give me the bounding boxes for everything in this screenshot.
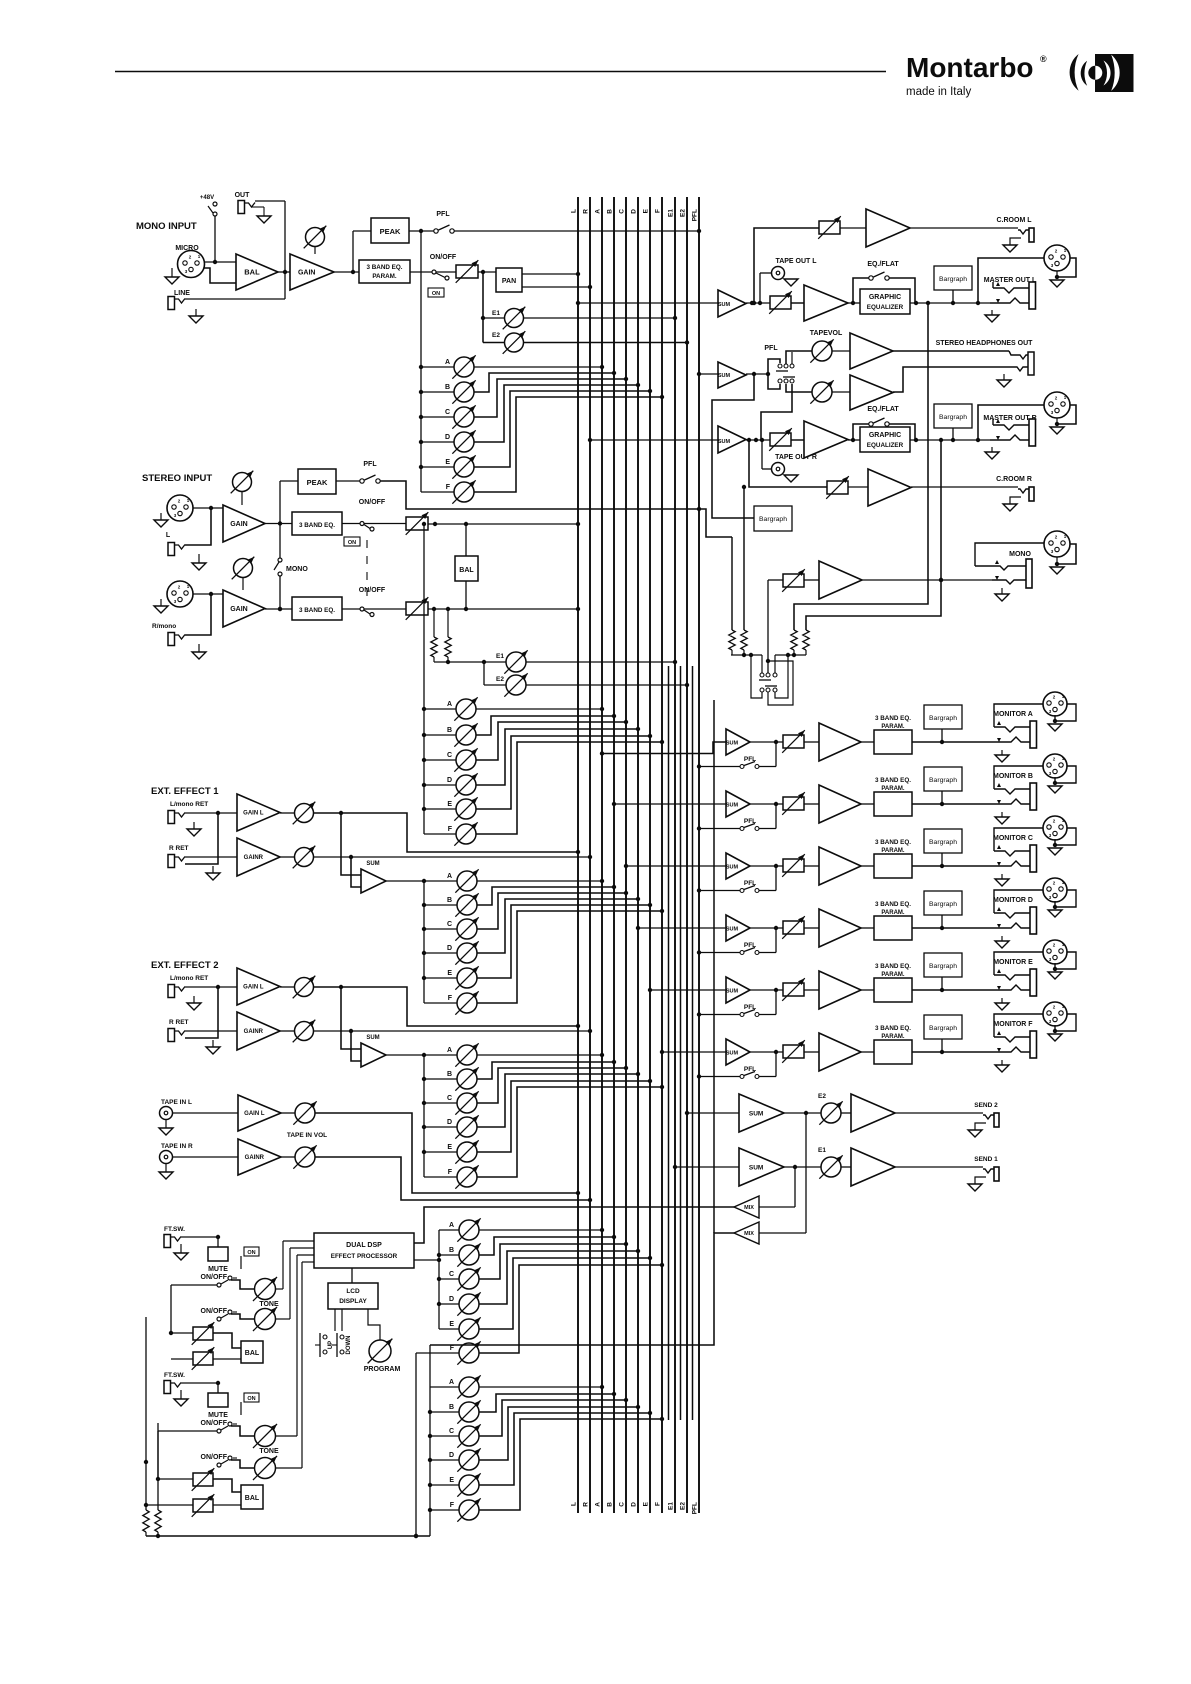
wire dsp2 fan feed (429, 1345, 431, 1536)
wire bus E (643, 197, 651, 1513)
wire (768, 579, 783, 581)
svg-text:SUM: SUM (718, 302, 731, 308)
wire (759, 866, 776, 891)
wire monitor C feed (624, 864, 726, 868)
wire monitor D feed (636, 926, 726, 930)
potentiometer dsp1 send B (457, 1243, 480, 1266)
wire (439, 1278, 459, 1280)
svg-text:MONITOR C: MONITOR C (993, 835, 1033, 842)
node MONO label (1009, 551, 1031, 558)
node SUM label (366, 1035, 379, 1041)
wire (424, 1102, 457, 1104)
svg-text:PFL: PFL (692, 209, 699, 221)
ground (997, 374, 1011, 387)
svg-text:ON/OFF: ON/OFF (359, 499, 386, 506)
node junction (419, 365, 423, 369)
ground (985, 310, 999, 322)
svg-text:3 BAND EQ.: 3 BAND EQ. (875, 715, 911, 722)
svg-text:E: E (449, 1321, 454, 1328)
svg-text:LCD: LCD (346, 1288, 360, 1295)
ground (187, 996, 201, 1010)
svg-text:+48V: +48V (200, 195, 214, 201)
block MUTE (208, 1393, 228, 1419)
node TAPE OUT R label (775, 454, 817, 461)
wire (158, 1431, 217, 1480)
wire (893, 351, 1016, 355)
wire (1053, 766, 1076, 785)
wire (912, 1050, 991, 1054)
potentiometer E2 send mono (503, 331, 526, 354)
wire PAN R out (522, 285, 592, 289)
svg-text:E: E (449, 1477, 454, 1484)
svg-text:3 BAND EQ.: 3 BAND EQ. (299, 522, 335, 529)
wire (185, 298, 285, 300)
potentiometer send A stereo (454, 697, 477, 720)
ground (784, 279, 798, 286)
wire (476, 727, 640, 785)
wire (421, 466, 454, 468)
wire (185, 856, 237, 858)
node +48V phantom label (200, 195, 214, 201)
ground (1050, 427, 1064, 434)
svg-text:GAINR: GAINR (245, 1155, 265, 1161)
wire (762, 440, 771, 469)
node 3 BAND EQ PARAM labels (875, 1025, 911, 1040)
wire (861, 741, 874, 743)
wire (115, 71, 886, 73)
wire (474, 395, 664, 492)
wire monitor E PFL (697, 1012, 740, 1016)
connector headphones jack (1013, 352, 1034, 375)
wire (483, 342, 504, 344)
ground (159, 1120, 173, 1135)
svg-text:GAIN: GAIN (298, 270, 316, 277)
svg-text:Bargraph: Bargraph (929, 777, 957, 784)
wire (861, 803, 874, 805)
wire monitor C PFL (697, 888, 740, 892)
wire (265, 521, 292, 525)
op-amp MONO amp (804, 561, 862, 599)
wire effect send feed (423, 1055, 425, 1177)
node junction (419, 415, 423, 419)
connector MASTER OUT L XLR (1044, 245, 1070, 271)
node MONITOR F label (993, 1021, 1033, 1028)
wire master L to mono resistor (794, 303, 928, 630)
node EQ./FLAT label (867, 406, 899, 413)
fader monitor E (782, 978, 805, 1001)
svg-text:SUM: SUM (726, 865, 739, 871)
wire (910, 301, 990, 305)
svg-text:PEAK: PEAK (380, 227, 401, 236)
wire (975, 543, 1044, 566)
node junction (422, 1150, 426, 1154)
switch mono source A (759, 655, 777, 680)
svg-text:DUAL DSP: DUAL DSP (346, 1242, 382, 1249)
wire (231, 1280, 254, 1289)
wire (1053, 828, 1076, 847)
wire bus PFL (692, 197, 700, 1514)
node MASTER OUT R label (983, 415, 1036, 422)
svg-text:EFFECT PROCESSOR: EFFECT PROCESSOR (331, 1253, 398, 1260)
svg-text:PARAM.: PARAM. (881, 910, 905, 916)
wire (352, 231, 354, 272)
svg-text:LINE: LINE (174, 290, 190, 297)
wire (477, 1079, 652, 1152)
node junction (419, 390, 423, 394)
wire effect send feed (423, 881, 425, 1003)
node ON box (244, 1247, 259, 1256)
connector MASTER OUT R jacks (990, 419, 1036, 446)
potentiometer send C mono (452, 405, 475, 428)
node send C label (449, 1271, 454, 1278)
wire (479, 1411, 652, 1485)
svg-text:SUM: SUM (726, 741, 739, 747)
node send E label (449, 1477, 454, 1484)
wire (193, 592, 223, 596)
svg-text:Bargraph: Bargraph (929, 901, 957, 908)
wire mono PFL to bus (419, 229, 701, 233)
svg-text:E2: E2 (818, 1093, 826, 1100)
svg-text:PARAM.: PARAM. (881, 724, 905, 730)
op-amp SUM effect (361, 1043, 386, 1067)
switch stereo L ON/OFF (360, 522, 374, 532)
node R RET label (169, 845, 189, 852)
ground (154, 513, 168, 527)
node send F label (450, 1345, 455, 1352)
potentiometer TAPE IN VOL R (293, 1145, 316, 1168)
svg-text:ON/OFF: ON/OFF (201, 1454, 228, 1461)
ground (154, 599, 168, 613)
wire (479, 1242, 628, 1279)
node send F label (448, 995, 453, 1002)
node send F label (450, 1502, 455, 1509)
svg-text:TAPE IN VOL: TAPE IN VOL (287, 1132, 327, 1139)
svg-text:TAPE OUT L: TAPE OUT L (775, 258, 817, 265)
wire (278, 576, 282, 611)
wire (430, 1435, 459, 1437)
svg-text:F: F (448, 1169, 453, 1176)
wire (759, 1113, 806, 1233)
connector monitor D jack (991, 907, 1037, 934)
svg-text:Bargraph: Bargraph (929, 1025, 957, 1032)
svg-text:made in Italy: made in Italy (906, 86, 971, 98)
potentiometer effect L level (293, 976, 316, 999)
connector MONO jack (992, 559, 1032, 588)
node send D label (447, 1119, 452, 1126)
svg-text:A: A (449, 1222, 454, 1229)
potentiometer send E (455, 1140, 478, 1163)
wire monitor F PFL (697, 1074, 740, 1078)
wire (146, 1504, 193, 1506)
svg-text:F: F (446, 484, 451, 491)
wire monitor F feed (660, 1050, 726, 1054)
op-amp monitor D amp (819, 909, 861, 947)
ground (165, 268, 179, 284)
wire (477, 1072, 640, 1127)
wire (483, 317, 504, 319)
ground (1003, 238, 1021, 252)
wire (804, 927, 819, 929)
wire (910, 227, 1018, 229)
node 3 BAND EQ PARAM labels (875, 963, 911, 978)
node TAPE OUT L label (775, 258, 817, 265)
svg-text:E2: E2 (680, 209, 687, 217)
node ON/OFF label 2 (201, 1454, 228, 1461)
wire (144, 1462, 148, 1510)
wire (784, 1111, 821, 1115)
svg-text:E: E (643, 1501, 650, 1506)
block 3 BAND EQ monitor D (874, 916, 912, 940)
wire stereo send feed (423, 524, 425, 834)
potentiometer TONE 2 (253, 1456, 277, 1480)
svg-text:B: B (447, 727, 452, 734)
svg-text:BAL: BAL (245, 1495, 260, 1502)
wire (185, 811, 237, 815)
op-amp GAIN L (237, 794, 280, 831)
node junction (419, 465, 423, 469)
wire (750, 802, 783, 806)
node junction (428, 1458, 432, 1462)
svg-text:MONO: MONO (286, 566, 308, 573)
svg-text:A: A (595, 209, 602, 214)
wire (861, 989, 874, 991)
connector monitor B jack (991, 783, 1037, 810)
wire (185, 508, 211, 545)
wire (181, 1235, 220, 1247)
wire (421, 416, 454, 418)
svg-text:EXT. EFFECT 2: EXT. EFFECT 2 (151, 960, 219, 971)
connector monitor F jack (991, 1031, 1037, 1058)
svg-text:E: E (447, 1144, 452, 1151)
svg-text:SEND 1: SEND 1 (974, 1156, 998, 1163)
op-amp C.ROOM R amp (848, 469, 911, 506)
ground (968, 1123, 986, 1137)
potentiometer send E mono (452, 455, 475, 478)
wire monitor A PFL (697, 764, 740, 768)
switch MONO (274, 558, 282, 576)
svg-text:E1: E1 (818, 1147, 826, 1154)
svg-text:3 BAND EQ.: 3 BAND EQ. (299, 607, 335, 614)
wire (421, 491, 454, 493)
node FT.SW. label (164, 1226, 185, 1233)
svg-text:FT.SW.: FT.SW. (164, 1372, 185, 1379)
wire (279, 481, 281, 524)
wire (213, 1479, 241, 1492)
wire (280, 856, 294, 858)
wire (185, 813, 218, 864)
wire (786, 351, 812, 364)
svg-text:GRAPHIC: GRAPHIC (869, 432, 901, 439)
fader mono channel (456, 260, 479, 283)
svg-text:C.ROOM R: C.ROOM R (996, 476, 1032, 483)
connector MASTER OUT L jacks (990, 282, 1036, 309)
wire (889, 278, 918, 305)
resistor stereo R mix (445, 609, 451, 657)
wire (477, 879, 604, 883)
potentiometer send B (455, 1067, 478, 1090)
node junction (422, 807, 426, 811)
ground (995, 874, 1009, 886)
svg-text:SUM: SUM (749, 1164, 763, 1171)
wire (424, 977, 457, 979)
node TONE label (259, 1448, 279, 1455)
svg-text:R RET: R RET (169, 1019, 189, 1026)
node 3 BAND EQ PARAM labels (875, 715, 911, 730)
wire (231, 1426, 254, 1436)
fader dsp2 L (192, 1468, 215, 1491)
node EQ./FLAT label (867, 261, 899, 268)
node 3 BAND EQ PARAM labels (875, 839, 911, 854)
wire (742, 440, 827, 489)
node ON box (428, 288, 444, 297)
node FT.SW. label (164, 1372, 185, 1379)
node send B label (447, 727, 452, 734)
wire (430, 1411, 459, 1413)
node junction (422, 783, 426, 787)
connector SEND 1 jack (983, 1167, 999, 1181)
wire (474, 383, 640, 442)
potentiometer gain (304, 226, 327, 254)
switch PFL mono (434, 225, 454, 233)
wire (941, 853, 943, 866)
node STEREO HEADPHONES OUT label (936, 340, 1034, 347)
node junction (428, 1483, 432, 1487)
node ON/OFF label 2 (201, 1308, 228, 1315)
switch monitor E PFL (740, 1010, 759, 1017)
op-amp MIX 2 (734, 1222, 759, 1244)
node junction (428, 1508, 432, 1512)
potentiometer dsp2 send A (457, 1375, 480, 1398)
wire (144, 1317, 148, 1464)
node PFL label (363, 461, 377, 468)
svg-text:L/mono RET: L/mono RET (170, 975, 208, 982)
node ON box (244, 1393, 259, 1402)
svg-text:SUM: SUM (366, 1035, 379, 1041)
wire (280, 812, 294, 814)
ground (995, 588, 1009, 601)
wire (759, 928, 776, 953)
node E1 label (492, 310, 500, 317)
svg-text:A: A (445, 359, 450, 366)
op-amp SUM master R (718, 426, 746, 453)
wire (439, 1229, 459, 1231)
op-amp SUM monitor C (726, 853, 750, 879)
wire (386, 879, 457, 883)
op-amp send 2 amp (851, 1094, 895, 1132)
node send C label (447, 752, 452, 759)
connector MASTER OUT R XLR (1044, 392, 1070, 418)
op-amp monitor E amp (819, 971, 861, 1009)
connector R RET jack (168, 1029, 185, 1042)
potentiometer send F (455, 1165, 478, 1188)
svg-text:C: C (449, 1271, 454, 1278)
wire (746, 438, 804, 442)
wire master R to mono resistor (806, 440, 943, 630)
wire (804, 803, 819, 805)
wire (281, 1112, 295, 1114)
block Bargraph monitor E (924, 953, 962, 977)
svg-text:SUM: SUM (726, 927, 739, 933)
resistor mono mix 1 (729, 537, 735, 655)
svg-text:TAPE IN R: TAPE IN R (161, 1143, 193, 1150)
fader dsp2 R (192, 1494, 215, 1517)
wire (156, 1423, 160, 1510)
wire (173, 1112, 238, 1114)
wire (861, 927, 874, 929)
svg-text:Montarbo: Montarbo (906, 52, 1034, 83)
node send B label (447, 1071, 452, 1078)
svg-text:L: L (571, 209, 578, 213)
svg-text:MIX: MIX (744, 1231, 754, 1237)
wire (731, 653, 762, 657)
wire (439, 1254, 459, 1256)
node SEND 1 label (974, 1156, 998, 1163)
connector TAPE OUT R RCA (772, 463, 785, 476)
wire (479, 1392, 616, 1412)
wire (941, 1039, 943, 1052)
wire (185, 1030, 237, 1032)
svg-text:MONITOR E: MONITOR E (993, 959, 1033, 966)
svg-text:DOWN: DOWN (346, 1336, 352, 1355)
svg-text:C: C (449, 1428, 454, 1435)
svg-text:R/mono: R/mono (152, 623, 176, 630)
wire (430, 1386, 459, 1388)
wire (342, 523, 406, 525)
wire (941, 915, 943, 928)
wire mono send feed (420, 231, 422, 492)
potentiometer E1 send stereo (504, 650, 527, 673)
wire (280, 480, 362, 482)
connector monitor D XLR (1043, 878, 1067, 902)
node send B label (449, 1247, 454, 1254)
node send E label (445, 459, 450, 466)
svg-text:C.ROOM L: C.ROOM L (997, 217, 1033, 224)
potentiometer gain L stereo (231, 471, 254, 505)
wire dsp1 fan feed (437, 1230, 441, 1329)
wire bus C (619, 197, 627, 1513)
connector MICRO XLR (178, 251, 205, 278)
wire (941, 729, 943, 742)
op-amp C.ROOM L amp (840, 209, 910, 247)
wire (786, 384, 812, 392)
wire (386, 1053, 457, 1057)
fader MONO (782, 569, 805, 592)
node STEREO INPUT label (142, 473, 212, 484)
svg-text:E: E (447, 801, 452, 808)
wire monitor D PFL (697, 950, 740, 954)
block 3 BAND EQ monitor E (874, 978, 912, 1002)
wire (994, 704, 1043, 721)
node SUM label (366, 861, 379, 867)
wire (952, 428, 954, 440)
wire (476, 714, 616, 735)
potentiometer dsp1 send A (457, 1218, 480, 1241)
wire (314, 811, 580, 854)
svg-text:GAINR: GAINR (244, 1029, 264, 1035)
node send A label (449, 1222, 454, 1229)
svg-text:GAIN L: GAIN L (244, 1111, 265, 1117)
node junction (422, 1101, 426, 1105)
wire (479, 1385, 604, 1389)
wire (421, 391, 454, 393)
wire (588, 438, 718, 442)
wire (952, 290, 954, 303)
resistor dsp2 mix R (155, 1510, 161, 1536)
resistor mono mix 3 (791, 630, 797, 655)
wire riser 2 (680, 666, 682, 1420)
wire (424, 904, 457, 906)
node E2 label (818, 1093, 826, 1100)
